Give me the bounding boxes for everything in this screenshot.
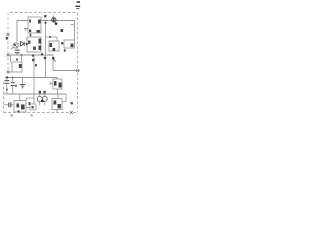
label speck U6 bottom	[18, 110, 20, 112]
label speck near C4	[15, 85, 17, 87]
wire to ground	[22, 78, 24, 85]
resistor mark R1	[39, 91, 41, 94]
wire C2 stem	[6, 78, 8, 95]
node right bottom	[71, 102, 73, 104]
wire rail down right	[52, 55, 54, 71]
lower rail wire	[5, 78, 57, 80]
dashed enclosure left side bottom	[3, 82, 5, 113]
transistor Q3	[37, 96, 42, 101]
resistor R3	[30, 104, 36, 110]
wire mid riser	[33, 94, 35, 104]
wire cross3 to U3	[8, 71, 12, 73]
label mark 16	[61, 29, 64, 32]
supply rail wire	[8, 54, 53, 56]
block U7	[52, 99, 62, 110]
Q2 internal bar	[11, 44, 17, 49]
capacitor C3	[9, 102, 11, 107]
node on wire y37	[49, 36, 51, 38]
block U6	[14, 101, 26, 113]
dashed enclosure left side middle	[7, 37, 9, 54]
capacitor C2	[5, 81, 10, 84]
U8 glyph right	[59, 83, 62, 88]
node C2 stem	[6, 89, 8, 91]
U2 pin glyph right lower	[39, 46, 42, 51]
label speck below border mid	[31, 115, 33, 117]
wire Q4 stem	[44, 93, 46, 105]
wire y37 to U4	[46, 37, 58, 41]
Q2 inner dot	[14, 44, 16, 46]
U1 pin glyph left	[29, 20, 31, 23]
boundary cross left 2	[7, 54, 10, 57]
node Q3 Q4	[41, 100, 44, 103]
wire down right side	[74, 21, 76, 41]
U4 glyph bottom	[53, 48, 56, 51]
dashed enclosure bottom side	[4, 112, 78, 114]
wire rail to U6 top	[19, 94, 21, 101]
wire U1 to U2	[30, 33, 32, 37]
node rail c	[41, 53, 43, 55]
R3 mark	[29, 102, 31, 105]
U7 glyph left	[54, 101, 57, 105]
U1 pin glyph bottom left	[29, 30, 31, 33]
node rail a	[21, 54, 23, 56]
U1 pin glyph bottom right	[37, 30, 41, 33]
wire U6 right to R3	[26, 107, 30, 109]
dashed enclosure right side	[77, 13, 79, 113]
block U3	[12, 62, 22, 72]
boundary cross left 3	[7, 71, 10, 74]
wire stub into U2	[24, 29, 28, 32]
R3 inner dot	[32, 106, 34, 109]
U3 glyph right	[19, 64, 22, 68]
capacitor C1	[15, 50, 20, 53]
block U8	[53, 79, 62, 89]
node rail b	[32, 54, 34, 56]
capacitor C4	[11, 83, 15, 86]
wire into C3	[4, 104, 8, 106]
U5 stub left	[62, 43, 65, 45]
blob below rail	[32, 59, 35, 62]
node right riser	[52, 57, 55, 60]
wire rail to U3 right	[21, 55, 23, 62]
dashed enclosure left side upper	[7, 13, 9, 34]
wire D1 to U2	[24, 43, 27, 45]
node lower rail	[6, 76, 8, 78]
block U5	[64, 40, 75, 48]
label speck 32	[35, 64, 37, 66]
wire U7 bottom stub	[56, 110, 58, 113]
label speck below cross1	[6, 37, 8, 40]
wire U1 output to right	[41, 20, 75, 22]
arrow tick right riser	[54, 59, 56, 61]
U4 glyph left	[50, 43, 52, 47]
wire D2 stem	[12, 78, 14, 95]
boundary cross right	[76, 69, 79, 72]
U2 pin glyph bottom	[33, 47, 36, 50]
reference label 24 top right	[76, 2, 81, 6]
bottom rail wire	[4, 93, 66, 95]
node junction U1-U2	[30, 34, 32, 36]
node at U2 left pin	[26, 43, 28, 45]
label speck below U5	[64, 49, 66, 51]
transistor Q4	[42, 96, 47, 101]
node riser top	[44, 22, 46, 24]
U2 pin glyph right upper	[39, 39, 42, 44]
wire Q2 to D1	[18, 43, 20, 45]
wire Q2 to C1	[16, 48, 18, 55]
wire U7 right loop	[62, 94, 66, 102]
U8 stub left	[50, 82, 53, 85]
U5 glyph	[71, 44, 74, 48]
dashed enclosure left side lower	[7, 58, 9, 71]
wire branch y98	[27, 98, 35, 101]
label speck 18	[44, 15, 46, 17]
wire U7 top	[57, 94, 59, 99]
block U1	[28, 17, 41, 33]
U3 glyph top	[16, 59, 18, 61]
transistor Q2	[13, 43, 18, 48]
Q1 base dot	[55, 22, 58, 25]
diode D1	[21, 41, 25, 46]
wire rail down mid2	[45, 21, 47, 78]
U5 left mark	[61, 42, 63, 44]
stub at right corner	[71, 24, 75, 26]
wire rail down mid	[33, 55, 35, 94]
Q1 top tick	[52, 16, 54, 18]
U7 glyph right	[58, 104, 61, 108]
ground	[20, 84, 26, 87]
wire rail to U3 left	[10, 55, 12, 62]
block U2	[27, 37, 41, 52]
wire out right	[53, 70, 80, 72]
U2 pin glyph left	[28, 41, 30, 44]
boundary cross left 1	[7, 33, 10, 36]
node C4 stem	[12, 77, 14, 79]
transistor Q1	[52, 18, 56, 22]
wire U8 bottom stem	[57, 89, 59, 94]
wire C3 to U6	[11, 104, 14, 106]
boundary cross bottom	[70, 111, 73, 114]
dashed enclosure top side	[10, 12, 78, 14]
wire Q3 stem	[39, 93, 41, 105]
U1 pin glyph right	[38, 20, 41, 24]
node mid2	[44, 57, 47, 60]
U6 glyph left	[17, 104, 20, 108]
U6 glyph right	[21, 105, 25, 110]
U8 glyph left	[54, 81, 57, 86]
resistor mark R2	[43, 91, 45, 94]
wire input to U1	[17, 21, 28, 43]
Q1 inner bar	[53, 17, 55, 22]
block U4	[49, 41, 59, 51]
label speck below border left	[11, 115, 13, 117]
